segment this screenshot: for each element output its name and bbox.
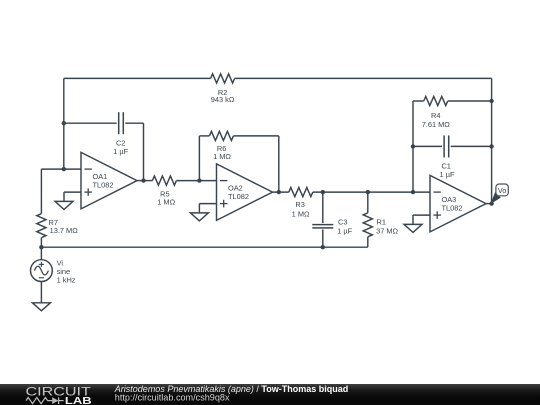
wire C2 left segment bbox=[64, 122, 117, 124]
node C1 right junction bbox=[489, 144, 493, 148]
label R2 value bbox=[211, 88, 235, 104]
ground at OA1 non-inverting input bbox=[55, 192, 81, 209]
wire R1 bottom lead bbox=[367, 237, 369, 247]
wire OA3 feedback left vertical x=413 bbox=[412, 101, 414, 192]
footer attribution line bbox=[114, 384, 348, 394]
wire R7 vertical upper lead bbox=[40, 169, 42, 214]
svg-text:R3: R3 bbox=[295, 200, 304, 209]
node C3 top junction bbox=[321, 190, 325, 194]
wire R6 left vertical bbox=[198, 136, 200, 181]
label C2 value bbox=[113, 139, 128, 156]
resistor R4 bbox=[424, 96, 448, 105]
svg-text:7.61 MΩ: 7.61 MΩ bbox=[422, 120, 451, 129]
wire C2 right segment bbox=[125, 122, 143, 124]
node OA3 inverting junction bbox=[411, 190, 415, 194]
label OA1 bbox=[93, 172, 114, 190]
resistor R2 bbox=[211, 74, 235, 83]
wire R1 top lead bbox=[367, 192, 369, 213]
wire R6 top right lead bbox=[233, 135, 278, 137]
CircuitLab logo wordmark CIRCUIT bbox=[26, 385, 91, 399]
label C1 value bbox=[440, 161, 455, 179]
footer url line bbox=[115, 393, 230, 403]
CircuitLab logo wordmark LAB bbox=[65, 396, 92, 405]
node R4 right junction bbox=[489, 99, 493, 103]
svg-text:R4: R4 bbox=[431, 111, 440, 120]
wire C1 right lead bbox=[451, 145, 492, 147]
node R1 top junction bbox=[366, 190, 370, 194]
node R6 left junction bbox=[197, 178, 201, 182]
svg-text:1 µF: 1 µF bbox=[440, 170, 455, 179]
wire left feedback vertical x=63.8 from top wire down to OA1 inverting node bbox=[63, 78, 65, 169]
svg-text:1 kHz: 1 kHz bbox=[57, 276, 76, 285]
wire C3 top lead bbox=[322, 192, 324, 223]
label OA2 bbox=[228, 183, 249, 201]
wire C1 left lead bbox=[413, 145, 442, 147]
resistor R5 bbox=[152, 176, 176, 185]
label R1 value bbox=[376, 218, 398, 236]
svg-text:Vo: Vo bbox=[498, 186, 506, 195]
svg-text:TL082: TL082 bbox=[442, 203, 463, 212]
label R3 value bbox=[292, 200, 310, 218]
wire OA3 output stub bbox=[486, 203, 492, 205]
resistor R3 bbox=[289, 188, 313, 197]
svg-text:1 MΩ: 1 MΩ bbox=[157, 198, 175, 207]
svg-text:943 kΩ: 943 kΩ bbox=[211, 95, 235, 104]
CircuitLab logo resistor-diode glyph bbox=[26, 397, 64, 404]
node Vo output junction bbox=[489, 201, 493, 205]
wire R7 vertical lower lead to bottom node bbox=[40, 238, 42, 248]
svg-text:1 µF: 1 µF bbox=[113, 147, 128, 156]
op-amp OA2 (TL082) bbox=[217, 164, 273, 221]
label R7 value bbox=[49, 218, 79, 235]
svg-text:TL082: TL082 bbox=[93, 180, 114, 189]
capacitor C1 bbox=[444, 135, 449, 157]
wire bottom rail from Vi node to R1 bbox=[41, 246, 367, 248]
resistor R7 (vertical) bbox=[37, 214, 46, 238]
svg-text:sine: sine bbox=[57, 267, 71, 276]
wire R5 right lead to OA2 bbox=[176, 180, 216, 182]
svg-text:1 MΩ: 1 MΩ bbox=[292, 209, 310, 218]
label R5 value bbox=[157, 189, 175, 206]
wire OA2 output to R3 bbox=[273, 191, 289, 193]
wire Vi bottom lead to ground bbox=[40, 282, 42, 303]
capacitor C3 (vertical) bbox=[312, 225, 333, 228]
wire R3 to OA3 inverting node bbox=[313, 191, 413, 193]
wire R4 left lead bbox=[413, 100, 424, 102]
node OA2 output junction bbox=[277, 190, 281, 194]
output flag Vo bbox=[490, 184, 508, 204]
wire R4 right lead bbox=[448, 100, 492, 102]
label R4 value bbox=[422, 111, 451, 129]
svg-text:1 MΩ: 1 MΩ bbox=[213, 152, 231, 161]
node A junction (C2 left tap) bbox=[62, 121, 66, 125]
label R6 value bbox=[213, 144, 231, 161]
wire R2 right segment along top to right vertical bbox=[235, 77, 492, 79]
label OA3 bbox=[442, 195, 463, 213]
svg-text:LAB: LAB bbox=[65, 396, 92, 405]
wire R6 right vertical down to OA2 output bbox=[278, 136, 280, 192]
svg-text:C3: C3 bbox=[338, 218, 347, 227]
svg-text:37 MΩ: 37 MΩ bbox=[376, 227, 398, 236]
capacitor C2 bbox=[119, 112, 124, 134]
wire Vi top lead bbox=[40, 247, 42, 260]
wire C3 bottom lead bbox=[322, 229, 324, 247]
op-amp OA3 (TL082) bbox=[430, 175, 486, 232]
label C3 value bbox=[337, 218, 352, 236]
ground below Vi bbox=[32, 303, 50, 311]
resistor R1 (vertical) bbox=[363, 213, 372, 237]
voltage source Vi (sine) bbox=[31, 260, 53, 282]
node C1 left junction bbox=[411, 144, 415, 148]
node C3 bottom junction bbox=[321, 245, 325, 249]
svg-text:R1: R1 bbox=[377, 218, 386, 227]
label Vi bbox=[57, 259, 76, 285]
node OA1 output junction bbox=[141, 178, 145, 182]
wire OA1 inverting input from R7 top corner bbox=[41, 168, 81, 170]
svg-text:TL082: TL082 bbox=[228, 192, 249, 201]
svg-text:13.7 MΩ: 13.7 MΩ bbox=[50, 226, 79, 235]
wire C2 right vertical down to OA1 output node bbox=[143, 123, 145, 180]
svg-text:1 µF: 1 µF bbox=[337, 227, 352, 236]
wire right feedback vertical from top wire down to output node bbox=[491, 78, 493, 203]
wire top feedback from node A to OA3 output, R2 left segment bbox=[64, 77, 211, 79]
wire OA3 inverting node to OA3 input bbox=[413, 191, 430, 193]
node OA1 inverting junction bbox=[62, 167, 66, 171]
ground at OA3 non-inverting input bbox=[404, 215, 430, 232]
ground at OA2 non-inverting input bbox=[190, 204, 216, 221]
wire OA1 output to OA2 inverting input, R5 left lead bbox=[137, 180, 152, 182]
svg-text:http://circuitlab.com/csh9q8x: http://circuitlab.com/csh9q8x bbox=[115, 393, 230, 403]
node Vi top junction bbox=[39, 245, 43, 249]
resistor R6 bbox=[209, 131, 233, 140]
wire R6 top left lead bbox=[199, 135, 209, 137]
op-amp OA1 (TL082) bbox=[81, 152, 137, 209]
